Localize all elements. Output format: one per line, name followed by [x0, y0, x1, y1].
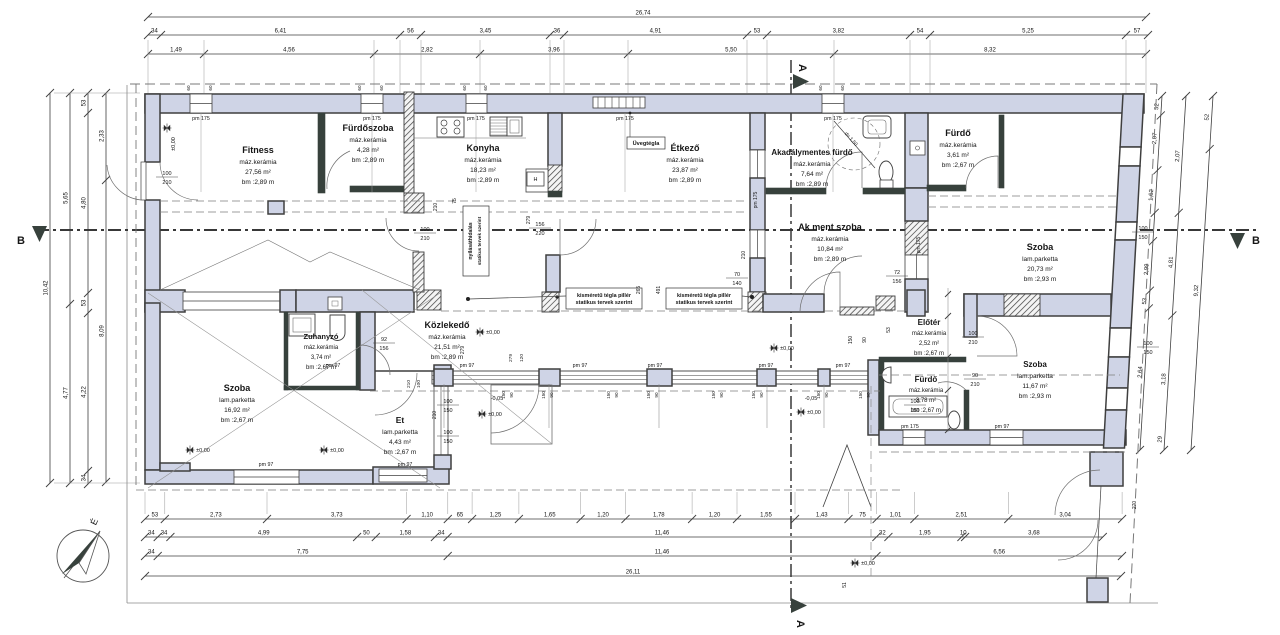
wall span to Zuhanyzo: [296, 290, 414, 312]
svg-text:pm 97: pm 97: [326, 363, 341, 369]
window centerline extensions top rooms: [201, 113, 833, 192]
svg-text:Fürdő: Fürdő: [945, 128, 971, 138]
chimney hatched block: [404, 193, 424, 213]
window Ak-ment right: [905, 255, 928, 279]
fence slant line bottom right: [1096, 486, 1101, 578]
svg-text:32: 32: [879, 531, 886, 537]
wall Fitness bottom / Szoba top left part: [145, 290, 185, 312]
patio door arcs right: [1055, 470, 1100, 515]
svg-text:2,52 m²: 2,52 m²: [919, 341, 939, 347]
svg-text:9,32: 9,32: [1194, 284, 1201, 297]
svg-text:±0,00: ±0,00: [196, 448, 210, 454]
door arc Ak-ment bottom door: [824, 256, 862, 294]
door arc below Furdoszoba: [386, 218, 419, 251]
svg-text:máz.kerámia: máz.kerámia: [464, 157, 502, 164]
svg-text:nyílásáthidalás: nyílásáthidalás: [468, 222, 474, 259]
door arc corridor entry: [491, 385, 539, 433]
WC Akad-furdo: [879, 161, 893, 183]
svg-text:36: 36: [554, 29, 561, 35]
dimension chain top row2: [144, 29, 1152, 40]
washbasin Furdo-br: [882, 367, 891, 383]
svg-text:150: 150: [443, 408, 452, 414]
hatched corridor end wall: [840, 307, 874, 315]
svg-text:210: 210: [741, 251, 747, 260]
eaves dashed left vertical: [135, 84, 137, 490]
svg-text:3,68: 3,68: [1028, 531, 1040, 537]
svg-text:Étkező: Étkező: [670, 143, 700, 153]
level marker szoba-bl 2: [320, 446, 344, 455]
wall Konyha right upper: [548, 113, 562, 166]
glass block band Uvegtegla in top wall: [593, 97, 645, 108]
outer wall right window1: [1119, 147, 1141, 166]
svg-text:90: 90: [759, 392, 764, 398]
washbasin Zuhanyzo: [330, 315, 345, 341]
room label Szoba bottom-left: [219, 383, 255, 424]
svg-text:10,42: 10,42: [44, 280, 50, 296]
svg-text:90: 90: [509, 392, 514, 398]
WC Furdo-br: [948, 411, 960, 429]
svg-text:4,80: 4,80: [82, 197, 88, 209]
dot marker pillar C: [750, 295, 753, 298]
room label Furdo top-right: [939, 128, 977, 169]
svg-text:pm 175: pm 175: [824, 116, 842, 122]
outer wall right seg2: [1116, 166, 1140, 222]
reference ticks x948: [945, 291, 951, 433]
svg-text:statikus tervek szerint: statikus tervek szerint: [477, 216, 482, 265]
svg-text:270: 270: [1132, 501, 1138, 510]
svg-text:140: 140: [732, 281, 741, 287]
svg-text:pm 175: pm 175: [467, 116, 485, 122]
svg-text:23,87 m²: 23,87 m²: [672, 167, 698, 174]
corner block Et top: [434, 365, 451, 380]
hatched pillar Konyha right: [548, 165, 562, 192]
door arc Zuhanyzo entry: [360, 345, 390, 375]
svg-text:Ak ment szoba: Ak ment szoba: [798, 222, 863, 232]
svg-text:3,73: 3,73: [331, 513, 343, 519]
svg-text:pm 175: pm 175: [916, 236, 922, 253]
corridor pillar hatched B: [542, 292, 559, 312]
section marker B right: [1230, 233, 1260, 249]
svg-text:90: 90: [972, 373, 978, 379]
dimension chain left outer: [44, 89, 55, 487]
outer wall right window3: [1109, 328, 1132, 357]
svg-text:pm 97: pm 97: [995, 424, 1010, 430]
svg-text:150: 150: [646, 391, 651, 399]
extension lines left: [54, 93, 140, 483]
svg-text:220: 220: [535, 231, 544, 237]
svg-text:210: 210: [970, 382, 979, 388]
svg-text:29: 29: [1157, 435, 1163, 443]
svg-text:Fürdő: Fürdő: [915, 375, 938, 384]
room label Etkezo: [666, 143, 704, 184]
corridor pillar hatched C: [748, 292, 766, 312]
svg-text:1,65: 1,65: [544, 513, 556, 519]
svg-text:2,51: 2,51: [956, 513, 968, 519]
svg-text:150: 150: [751, 391, 756, 399]
wall Zuhanyzo right: [356, 312, 360, 390]
svg-text:pm 97: pm 97: [759, 363, 774, 369]
small box on wall right of Akad: [910, 141, 925, 155]
wall Konyha-Etkezo lower pier: [546, 255, 560, 292]
svg-text:bm :2,67 m: bm :2,67 m: [942, 162, 975, 169]
svg-text:1,49: 1,49: [170, 48, 182, 54]
svg-text:75: 75: [452, 198, 458, 204]
svg-text:279: 279: [460, 346, 466, 355]
svg-text:4,99: 4,99: [258, 531, 270, 537]
shower tray Akad-furdo: [863, 116, 891, 138]
dimension chain top row3: [144, 48, 1150, 59]
room label Konyha: [464, 143, 502, 184]
wing-right bottom band: [879, 430, 1126, 445]
svg-text:1,95: 1,95: [919, 531, 931, 537]
svg-text:100: 100: [420, 227, 429, 233]
window Szoba-bl bottom: [234, 470, 299, 484]
svg-text:34: 34: [161, 531, 168, 537]
door arc Furdo top-right: [966, 156, 998, 188]
svg-text:±0,00: ±0,00: [861, 561, 875, 567]
leader line notebox 1: [469, 296, 566, 299]
kitchen cupboard block: [526, 169, 548, 192]
svg-text:100: 100: [443, 399, 452, 405]
svg-text:1,78: 1,78: [653, 513, 665, 519]
svg-text:150: 150: [1138, 235, 1147, 241]
svg-text:210: 210: [432, 411, 438, 420]
svg-text:Konyha: Konyha: [466, 143, 500, 153]
svg-text:±0,00: ±0,00: [488, 412, 502, 418]
svg-text:pm 97: pm 97: [460, 363, 475, 369]
svg-text:6,56: 6,56: [993, 550, 1005, 556]
svg-text:3,45: 3,45: [480, 29, 492, 35]
wall Ak-ment right bottom: [905, 279, 928, 312]
svg-text:53: 53: [886, 327, 892, 333]
svg-text:210: 210: [433, 203, 439, 212]
svg-text:máz.kerámia: máz.kerámia: [939, 142, 977, 149]
svg-text:4,56: 4,56: [283, 48, 295, 54]
svg-text:bm :2,93 m: bm :2,93 m: [1019, 393, 1052, 400]
window Szoba-bl top: [183, 292, 280, 310]
window Szoba-br bottom: [990, 430, 1023, 445]
fridge box H: [527, 172, 544, 186]
outer wall right seg1: [1120, 94, 1144, 147]
wall Konyha right cap: [548, 191, 562, 197]
svg-text:60: 60: [208, 85, 213, 91]
dimension chain bottom row3: [141, 550, 1126, 561]
wall Zuhanyzo left: [284, 312, 288, 390]
door arc Eloter-Szoba: [977, 316, 1017, 356]
svg-text:máz.kerámia: máz.kerámia: [304, 345, 339, 351]
svg-text:bm :2,89 m: bm :2,89 m: [467, 177, 500, 184]
eaves dashed right-wing left vertical: [870, 386, 872, 578]
svg-text:±0,00: ±0,00: [780, 346, 794, 352]
dimension chain right inner: [1136, 92, 1166, 454]
svg-text:51: 51: [842, 582, 848, 588]
svg-text:pm 175: pm 175: [363, 116, 381, 122]
svg-text:50: 50: [363, 531, 370, 537]
svg-text:90: 90: [866, 392, 871, 398]
wall Furdo-tr/Szoba divider: [999, 115, 1004, 188]
svg-text:Üvegtégla: Üvegtégla: [633, 140, 661, 147]
svg-text:bm :2,67 m: bm :2,67 m: [384, 449, 417, 456]
svg-text:bm :2,67 m: bm :2,67 m: [221, 417, 254, 424]
note box pillar 2: [666, 288, 742, 309]
door arc Furdoszoba: [327, 151, 350, 189]
svg-text:kisméretű tégla pillér: kisméretű tégla pillér: [677, 293, 732, 299]
wall WC niche right: [360, 312, 375, 390]
svg-text:20,73 m²: 20,73 m²: [1027, 266, 1053, 273]
svg-text:210: 210: [406, 380, 412, 388]
svg-text:90: 90: [549, 392, 554, 398]
roof eaves dashed lines mid: [160, 200, 748, 202]
section line B-B horizontal dash-dot: [36, 229, 1258, 231]
right lower strip block: [1090, 452, 1123, 486]
wall Akad-furdo bottom left: [766, 188, 826, 194]
svg-text:1,20: 1,20: [709, 513, 721, 519]
svg-text:±0,00: ±0,00: [486, 330, 500, 336]
svg-text:Fürdőszoba: Fürdőszoba: [343, 123, 395, 133]
roof valley line corridor: [362, 290, 552, 444]
svg-text:5,50: 5,50: [725, 48, 737, 54]
room label Eloter: [912, 318, 947, 357]
svg-text:26,11: 26,11: [626, 570, 641, 576]
svg-text:120: 120: [519, 354, 525, 362]
svg-text:máz.kerámia: máz.kerámia: [793, 161, 831, 168]
roof dashed right wing low: [879, 451, 1125, 453]
corner block Et: [434, 455, 451, 469]
dimension chain left 2: [64, 89, 75, 487]
pillar Eloter: [907, 290, 925, 316]
corridor band pillar 1: [434, 369, 453, 386]
svg-text:lam.parketta: lam.parketta: [219, 397, 255, 404]
svg-text:1,25: 1,25: [490, 513, 502, 519]
svg-text:65: 65: [457, 513, 464, 519]
wall Furdoszoba bottom: [350, 186, 404, 192]
extension lines bottom: [145, 492, 1122, 514]
svg-text:7,75: 7,75: [297, 550, 309, 556]
section marker A bottom: [791, 598, 807, 628]
level marker porch: [851, 559, 875, 568]
dimension chain bottom row2: [141, 531, 1107, 542]
section line A-A vertical dash-dot: [790, 60, 792, 612]
svg-text:90: 90: [824, 392, 829, 398]
svg-text:A: A: [794, 620, 806, 628]
window top wall Fitness: [190, 94, 212, 113]
door lintel corridor left: [375, 370, 434, 372]
svg-text:60: 60: [818, 85, 823, 91]
compass north arrow: [57, 517, 109, 582]
svg-text:52: 52: [1154, 102, 1160, 110]
svg-text:B: B: [17, 235, 25, 247]
svg-text:H: H: [534, 177, 538, 183]
svg-text:Szoba: Szoba: [1023, 360, 1047, 369]
window Furdo-br bottom: [903, 430, 925, 445]
svg-text:60: 60: [840, 85, 845, 91]
svg-text:pm 175: pm 175: [901, 424, 919, 430]
svg-text:bm :2,89 m: bm :2,89 m: [814, 256, 847, 263]
pillar Szoba-bl top: [280, 290, 296, 312]
leader line notebox 2: [742, 296, 751, 297]
chimney hatched pillar Konyha-left: [404, 92, 414, 195]
svg-text:150: 150: [910, 408, 919, 414]
room label Zuhanyzo: [304, 332, 339, 371]
room label Et: [382, 415, 418, 456]
dimension chain right middle: [1157, 92, 1190, 454]
svg-text:2,33: 2,33: [100, 130, 106, 142]
stove Konyha: [437, 117, 464, 137]
corridor pillar hatched A: [417, 290, 441, 310]
small pillar mark Fitness: [268, 201, 284, 214]
svg-text:53: 53: [754, 29, 761, 35]
svg-text:100: 100: [416, 380, 422, 388]
site boundary right slanted dashed: [1130, 84, 1157, 603]
svg-text:bm :2,67 m: bm :2,67 m: [914, 351, 944, 357]
site boundary top (eaves dashed): [130, 83, 1157, 85]
svg-text:2,64: 2,64: [1138, 365, 1145, 378]
porch gable triangle: [823, 445, 871, 507]
room label Szoba right: [1022, 242, 1058, 283]
window wall Etkezo right 2: [750, 230, 765, 258]
door arc Fitness left: [160, 162, 198, 200]
svg-text:B: B: [1252, 235, 1260, 247]
svg-text:A: A: [796, 64, 808, 72]
svg-text:Szoba: Szoba: [224, 383, 251, 393]
right bottom small block: [1087, 578, 1108, 602]
outer wall right window4: [1106, 388, 1128, 410]
reference line x948 Eloter column: [947, 288, 949, 432]
svg-text:1,20: 1,20: [597, 513, 609, 519]
svg-text:4,22: 4,22: [82, 386, 88, 398]
level marker fitness: [163, 124, 178, 151]
svg-text:3,74 m²: 3,74 m²: [311, 355, 331, 361]
svg-text:150: 150: [711, 391, 716, 399]
corridor band pillar 5: [818, 369, 830, 386]
turning circle arrow d=1,50: [834, 121, 875, 168]
wall Etkezo right / Ak-ment left upper: [750, 113, 765, 150]
svg-text:10,84 m²: 10,84 m²: [817, 246, 843, 253]
svg-text:16,92 m²: 16,92 m²: [224, 407, 250, 414]
svg-text:lam.parketta: lam.parketta: [1022, 256, 1058, 263]
wall Furdo-br top: [879, 357, 966, 362]
svg-text:92: 92: [381, 337, 387, 343]
sink Konyha: [490, 117, 507, 136]
svg-text:150: 150: [606, 391, 611, 399]
svg-text:pm 97: pm 97: [573, 363, 588, 369]
svg-text:máz.kerámia: máz.kerámia: [428, 334, 466, 341]
bathtub Furdo-br: [889, 396, 947, 417]
level marker corridor right: [797, 408, 821, 417]
svg-text:8,09: 8,09: [100, 325, 106, 337]
svg-text:150: 150: [443, 439, 452, 445]
wall Furdo-br right: [964, 390, 969, 430]
outer wall bottom-left wing bottom: [145, 470, 373, 484]
svg-text:4,91: 4,91: [650, 29, 662, 35]
svg-text:4,81: 4,81: [1168, 256, 1175, 269]
room label Ak ment szoba: [798, 222, 863, 263]
room label Akadalymentes furdo: [771, 148, 852, 188]
svg-text:2,73: 2,73: [210, 513, 222, 519]
corridor band pillar 4: [757, 369, 776, 386]
svg-text:34: 34: [82, 474, 88, 481]
wall Furdo-br left: [879, 362, 884, 430]
svg-text:21,51 m²: 21,51 m²: [434, 344, 460, 351]
dimension chain left inner: [100, 89, 111, 486]
roof ridge polyline above wing: [160, 240, 420, 290]
svg-text:±0,00: ±0,00: [807, 410, 821, 416]
svg-text:máz.kerámia: máz.kerámia: [811, 236, 849, 243]
svg-text:90: 90: [862, 337, 868, 343]
dimension chain top total: [144, 11, 1150, 22]
svg-text:52: 52: [1205, 113, 1211, 121]
svg-text:bm :2,89 m: bm :2,89 m: [352, 157, 385, 164]
svg-text:máz.kerámia: máz.kerámia: [239, 159, 277, 166]
window top wall Konyha: [466, 94, 487, 113]
svg-text:8,32: 8,32: [984, 48, 996, 54]
outer wall right seg4b: [1104, 410, 1127, 448]
wing-right top wall hatch: [1004, 294, 1040, 316]
svg-text:60: 60: [379, 85, 384, 91]
svg-text:100: 100: [162, 171, 171, 177]
door arc Akad-furdo: [826, 152, 862, 188]
svg-text:90: 90: [614, 392, 619, 398]
svg-text:18,23 m²: 18,23 m²: [470, 167, 496, 174]
svg-text:pm 175: pm 175: [753, 191, 759, 208]
svg-text:156: 156: [892, 279, 901, 285]
svg-text:210: 210: [968, 340, 977, 346]
svg-text:90: 90: [654, 392, 659, 398]
svg-text:26,74: 26,74: [635, 11, 651, 17]
svg-text:27,56 m²: 27,56 m²: [245, 169, 271, 176]
wall Akad-furdo right upper: [905, 113, 928, 188]
svg-text:bm :2,89 m: bm :2,89 m: [242, 179, 275, 186]
roof dashed right section: [928, 195, 1120, 197]
roof dashed szoba-br mid: [879, 374, 1120, 376]
site boundary left: [126, 85, 128, 603]
hatched wall above corridor mid: [413, 252, 424, 292]
wall Ak-ment right low: [905, 188, 928, 221]
svg-text:11,46: 11,46: [655, 550, 670, 556]
svg-text:máz.kerámia: máz.kerámia: [349, 137, 387, 144]
window top wall Furdoszoba: [361, 94, 383, 113]
door arc corridor left (Et): [375, 373, 417, 415]
dimension chain right outer: [1187, 92, 1217, 454]
section marker A top: [793, 64, 809, 89]
svg-text:34: 34: [148, 550, 155, 556]
svg-text:Szoba: Szoba: [1027, 242, 1054, 252]
room label Furdo bottom-right: [909, 375, 944, 414]
svg-text:56: 56: [407, 29, 414, 35]
svg-text:150: 150: [501, 391, 506, 399]
svg-text:Akadálymentes fürdő: Akadálymentes fürdő: [771, 148, 852, 157]
svg-text:60: 60: [186, 85, 191, 91]
svg-text:60: 60: [462, 85, 467, 91]
room label Kozlekedo: [424, 320, 470, 361]
svg-text:60: 60: [357, 85, 362, 91]
svg-text:statikus tervek szerint: statikus tervek szerint: [676, 300, 733, 306]
svg-text:bm :2,89 m: bm :2,89 m: [796, 181, 829, 188]
svg-text:±0,00: ±0,00: [330, 448, 344, 454]
svg-text:pm 175: pm 175: [616, 116, 634, 122]
window Et bottom: [379, 469, 427, 482]
svg-text:150: 150: [816, 391, 821, 399]
dot marker pillar B: [555, 295, 558, 298]
svg-text:53: 53: [152, 513, 159, 519]
level marker corridor left: [478, 410, 502, 419]
svg-text:Előtér: Előtér: [918, 318, 941, 327]
svg-text:1,01: 1,01: [890, 513, 902, 519]
svg-text:Et: Et: [396, 415, 405, 425]
rotated note box nyilasathidalas: [463, 206, 489, 276]
door arc Konyha bottom: [560, 219, 596, 255]
svg-text:75: 75: [859, 513, 866, 519]
